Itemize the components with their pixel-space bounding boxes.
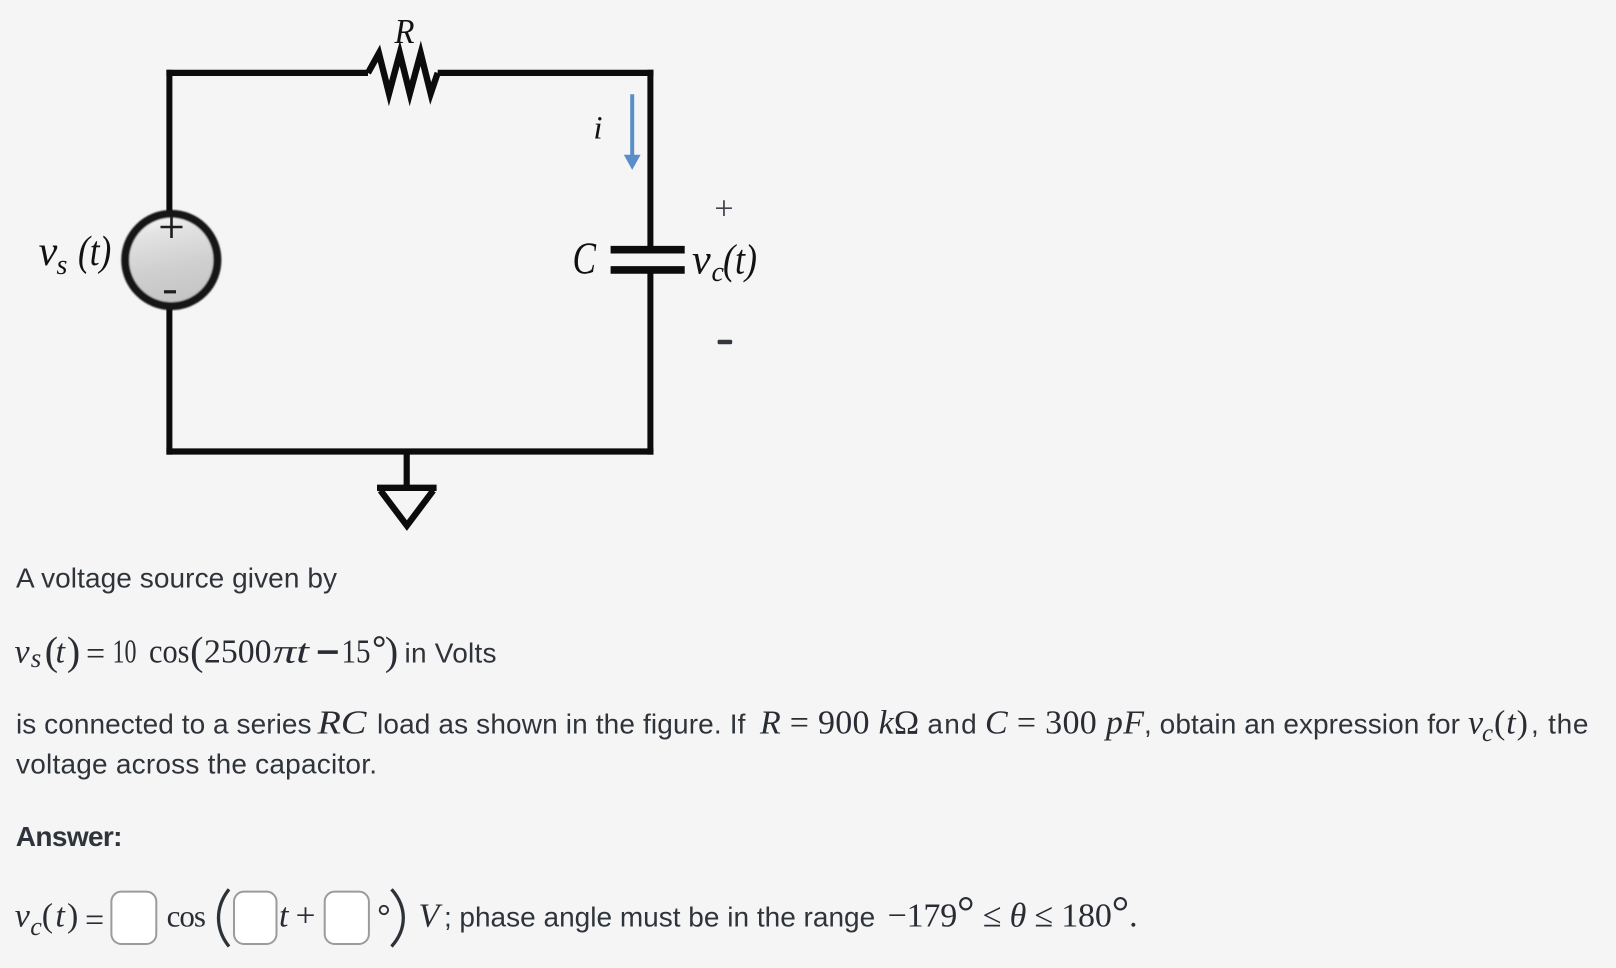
svg-text:cos: cos <box>149 634 190 671</box>
svg-text:C = 300 pF: C = 300 pF <box>985 705 1145 742</box>
svg-text:R: R <box>394 12 415 51</box>
input box 2 <box>234 892 277 944</box>
svg-text:R = 900 kΩ: R = 900 kΩ <box>759 705 919 742</box>
minus sign inside source <box>164 290 176 293</box>
input box 3 <box>325 892 369 944</box>
svg-text:πt: πt <box>273 634 311 671</box>
plus sign inside source <box>161 226 183 229</box>
svg-text:i: i <box>593 111 602 147</box>
svg-text:(t): (t) <box>1494 705 1528 742</box>
svg-text:t: t <box>279 897 290 934</box>
svg-text:C: C <box>573 234 597 284</box>
svg-text:v: v <box>15 634 31 671</box>
svg-text:s: s <box>31 643 42 673</box>
wire: top-right horizontal segment <box>438 70 654 76</box>
svg-text:t: t <box>56 634 67 671</box>
wire: right vertical lower (capacitor to bottom wire) <box>647 272 653 455</box>
svg-text:(t): (t) <box>723 238 757 284</box>
svg-text:v: v <box>39 229 58 275</box>
svg-text:c: c <box>1482 720 1493 747</box>
ground symbol <box>404 449 410 488</box>
svg-text:in Volts: in Volts <box>405 638 497 669</box>
current arrow i (blue) <box>630 94 634 155</box>
svg-text:(: ( <box>190 629 203 674</box>
svg-text:A voltage source given by: A voltage source given by <box>16 563 337 594</box>
svg-text:15: 15 <box>342 634 371 671</box>
svg-text:=: = <box>86 635 105 672</box>
input box 1 <box>111 892 156 944</box>
svg-text:voltage across the capacitor.: voltage across the capacitor. <box>16 749 377 780</box>
svg-text:cos: cos <box>167 898 206 933</box>
wire: top-left horizontal segment <box>166 70 368 76</box>
svg-text:v: v <box>692 238 711 284</box>
wire: left vertical upper (top wire to source) <box>166 70 172 216</box>
wire: right vertical upper (to capacitor top plate) <box>647 70 653 247</box>
svg-text:=: = <box>85 902 104 939</box>
svg-text:+: + <box>296 897 316 934</box>
svg-text:Answer:: Answer: <box>16 821 123 852</box>
minus label near capacitor <box>718 340 733 345</box>
svg-text:(t): (t) <box>78 229 111 275</box>
svg-text:phase angle must be in the ran: phase angle must be in the range <box>459 901 875 932</box>
svg-text:s: s <box>57 250 68 281</box>
svg-text:;: ; <box>444 901 452 932</box>
svg-text:(t): (t) <box>42 897 79 934</box>
big close paren <box>392 889 404 946</box>
svg-text:load as shown in the figure. I: load as shown in the figure. If <box>377 709 746 740</box>
svg-text:v: v <box>15 897 31 934</box>
svg-text:and: and <box>927 709 976 740</box>
svg-text:): ) <box>67 629 80 674</box>
svg-text:, the: , the <box>1531 709 1589 740</box>
svg-text:): ) <box>385 629 398 674</box>
svg-text:c: c <box>30 912 42 941</box>
capacitor C plates <box>611 246 685 254</box>
svg-text:2500: 2500 <box>204 634 272 671</box>
svg-text:is connected to a series: is connected to a series <box>16 709 312 740</box>
svg-text:10: 10 <box>113 634 137 671</box>
degree mark <box>380 906 388 914</box>
svg-text:RC: RC <box>316 705 366 742</box>
svg-text:, obtain an expression for: , obtain an expression for <box>1144 709 1460 740</box>
svg-text:+: + <box>714 191 733 228</box>
wire: bottom horizontal <box>166 448 653 454</box>
resistor R zigzag <box>368 53 438 93</box>
big open paren <box>219 889 230 946</box>
wire: left vertical lower (source to bottom wire) <box>166 305 172 455</box>
